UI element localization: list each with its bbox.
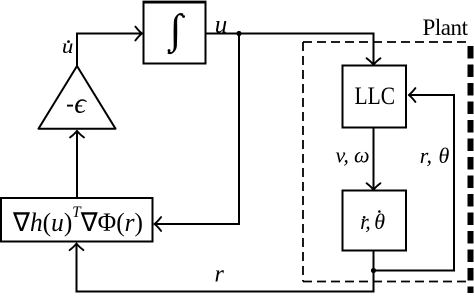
wire from node u down to gradient block with arrow <box>155 34 240 225</box>
r-theta-dot integrator block <box>343 191 407 251</box>
label r,theta <box>420 143 450 168</box>
label LLC <box>355 83 396 110</box>
wire from LLC to r-theta-dot block with arrow <box>373 129 375 190</box>
svg-text:u: u <box>215 11 228 38</box>
junction node u <box>236 31 241 36</box>
wire from integrator output to LLC input with arrow <box>206 34 374 65</box>
label gradient expression <box>12 204 143 237</box>
plant dashed boundary top edge <box>303 41 467 43</box>
wire from gradient block up to gain triangle with arrow <box>76 131 78 198</box>
svg-text:LLC: LLC <box>355 83 396 110</box>
plant dashed boundary left edge <box>302 42 304 282</box>
svg-text:Plant: Plant <box>423 15 469 40</box>
svg-text:∫: ∫ <box>167 7 184 55</box>
feedback wire r,theta to LLC with arrow <box>374 95 455 271</box>
plant dashed boundary right edge (thick) <box>468 46 474 293</box>
integrator U1 box <box>143 2 207 64</box>
label u <box>215 11 228 38</box>
svg-text:u: u <box>62 34 74 58</box>
label r-dot, theta-dot <box>360 209 385 234</box>
label Plant <box>423 15 469 40</box>
plant dashed boundary bottom edge <box>303 281 467 283</box>
label u-dot <box>62 34 74 58</box>
label r <box>215 262 225 288</box>
svg-text:r, θ: r, θ <box>420 143 450 168</box>
wire from r-theta-dot block down and along bottom to gradient block with arrow <box>77 244 374 292</box>
svg-text:ϵ: ϵ <box>74 88 87 120</box>
integrator symbol <box>167 7 185 55</box>
svg-text:r: r <box>215 262 225 288</box>
wire from gain triangle apex to integrator input with arrow <box>77 34 142 67</box>
junction node r <box>371 268 376 273</box>
svg-text:r, θ: r, θ <box>360 209 385 234</box>
svg-text:v, ω: v, ω <box>336 143 370 168</box>
gain triangle (-epsilon) <box>39 66 116 129</box>
label v,omega <box>336 143 370 168</box>
LLC block <box>343 66 407 128</box>
label -epsilon <box>67 88 87 120</box>
gradient block <box>1 198 153 242</box>
